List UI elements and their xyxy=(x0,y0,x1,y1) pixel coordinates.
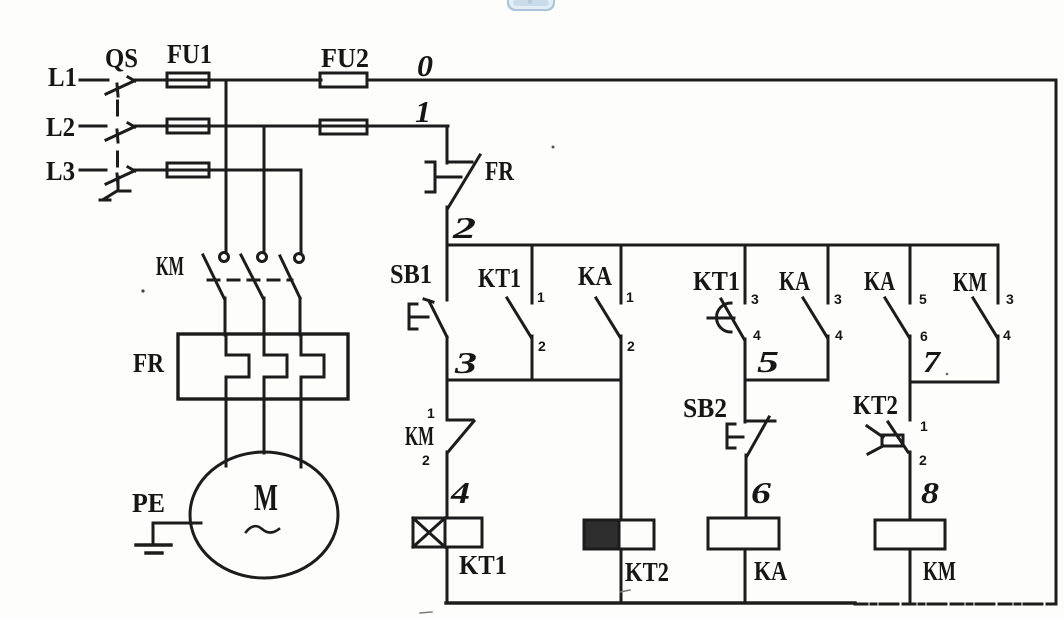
paper speck 5 xyxy=(620,590,630,592)
right rail wire xyxy=(1049,80,1056,604)
KM linkage dashed xyxy=(208,279,292,282)
svg-text:1: 1 xyxy=(537,289,545,305)
svg-text:5: 5 xyxy=(919,291,927,307)
paper speck 3 xyxy=(946,373,949,376)
wire KA coil to bottom bus xyxy=(744,549,747,603)
fuse FU2 upper (line 0) xyxy=(320,73,367,87)
svg-text:KA: KA xyxy=(779,266,810,296)
contact KA (NO, third) xyxy=(885,245,910,382)
motor tilde xyxy=(246,526,279,532)
wire L2 to FU2 xyxy=(133,125,448,128)
svg-text:KT1: KT1 xyxy=(478,263,521,293)
FR heater element 3 xyxy=(301,335,324,399)
wire L2 lead xyxy=(80,125,106,128)
svg-text:6: 6 xyxy=(920,328,928,344)
svg-text:2: 2 xyxy=(538,338,546,354)
svg-text:8: 8 xyxy=(921,475,940,510)
contactor KM main contact 1 xyxy=(203,253,229,336)
paper speck 1 xyxy=(141,289,144,292)
svg-text:QS: QS xyxy=(105,43,138,73)
coil KT2 xyxy=(584,520,654,549)
svg-text:KM: KM xyxy=(156,251,184,281)
wire L1 lead xyxy=(80,79,108,82)
svg-text:L1: L1 xyxy=(48,62,77,92)
wire line 0 xyxy=(367,79,1056,82)
toolbar button (blue, cropped at top) xyxy=(507,0,555,11)
svg-text:FR: FR xyxy=(485,156,514,186)
coil KT1 xyxy=(413,518,482,547)
svg-text:1: 1 xyxy=(626,289,634,305)
wire heater to motor A xyxy=(225,399,228,466)
wire motor branch A from L1 xyxy=(225,80,228,252)
wire L3 to branch xyxy=(133,169,301,172)
FR NC contact xyxy=(426,155,480,208)
svg-text:4: 4 xyxy=(450,475,470,510)
svg-text:4: 4 xyxy=(753,327,761,343)
wire heater to motor C xyxy=(300,399,303,467)
wire motor branch C from L3 xyxy=(300,170,303,254)
wire L3 lead xyxy=(80,169,106,172)
bottom bus dashed part xyxy=(855,603,1050,606)
svg-text:1: 1 xyxy=(427,405,435,421)
node 3 bus xyxy=(447,379,621,382)
wire SB1 to node3 xyxy=(446,337,449,381)
svg-text:KM: KM xyxy=(405,421,434,451)
paper speck 2 xyxy=(552,146,555,149)
wire line 1 drop xyxy=(446,126,449,163)
svg-text:5: 5 xyxy=(757,344,779,379)
node 2 bus xyxy=(447,244,998,247)
QS linkage dashed xyxy=(100,101,130,200)
fuse FU1 pole 1 xyxy=(167,73,209,87)
FR heater element 2 xyxy=(264,335,287,399)
svg-text:L3: L3 xyxy=(46,156,75,186)
wire motor branch B from L2 xyxy=(263,126,266,252)
svg-text:KA: KA xyxy=(578,261,612,291)
contact KA (NO, first) xyxy=(596,245,621,520)
svg-text:PE: PE xyxy=(132,488,165,518)
svg-text:6: 6 xyxy=(751,475,772,510)
svg-text:SB2: SB2 xyxy=(683,393,727,423)
svg-text:3: 3 xyxy=(834,291,842,307)
ground bars xyxy=(136,545,171,553)
svg-text:L2: L2 xyxy=(46,112,75,142)
svg-text:KT2: KT2 xyxy=(853,390,898,420)
bottom bus solid part xyxy=(446,601,855,604)
motor M circle xyxy=(190,452,338,578)
contact KT1 (NO) xyxy=(507,245,532,380)
wire KT2 coil to bottom bus xyxy=(620,549,623,603)
node 7 bus xyxy=(910,381,998,384)
node 5 bus xyxy=(745,379,828,382)
contact KM (NO aux) xyxy=(973,245,998,382)
wire KM coil to bottom bus xyxy=(909,549,912,604)
svg-text:4: 4 xyxy=(1003,327,1011,343)
svg-text:FU1: FU1 xyxy=(167,39,212,69)
coil KA xyxy=(708,518,779,549)
svg-text:3: 3 xyxy=(1006,291,1014,307)
svg-text:KA: KA xyxy=(754,556,787,586)
ground wire xyxy=(153,523,201,545)
svg-text:KT1: KT1 xyxy=(459,550,507,580)
svg-text:FU2: FU2 xyxy=(321,43,369,73)
fuse FU2 lower (line 1) xyxy=(320,120,367,134)
svg-text:M: M xyxy=(254,477,278,519)
wire SB2 to coil KA xyxy=(745,455,748,518)
pushbutton SB1 xyxy=(409,245,447,337)
switch QS pole 1 xyxy=(106,77,135,96)
contact KM NC aux xyxy=(447,380,474,518)
switch QS pole 2 xyxy=(106,123,135,142)
svg-text:0: 0 xyxy=(417,48,433,83)
svg-text:2: 2 xyxy=(422,452,430,468)
svg-text:KT1: KT1 xyxy=(693,266,740,296)
contact KA (NO, second) xyxy=(803,245,828,380)
svg-text:3: 3 xyxy=(751,291,759,307)
contact KT2 (delayed NC) xyxy=(867,382,910,520)
svg-text:3: 3 xyxy=(454,345,477,380)
svg-text:2: 2 xyxy=(452,210,476,245)
contactor KM main contact 3 xyxy=(280,254,304,336)
svg-text:4: 4 xyxy=(835,327,843,343)
contactor KM main contact 2 xyxy=(241,253,267,336)
svg-text:2: 2 xyxy=(627,338,635,354)
fuse FU1 pole 3 xyxy=(167,163,209,177)
svg-text:1: 1 xyxy=(415,94,431,129)
svg-text:2: 2 xyxy=(919,452,927,468)
wire L1 to FU2 xyxy=(133,79,321,82)
svg-text:SB1: SB1 xyxy=(390,259,432,289)
fuse FU1 pole 2 xyxy=(167,119,209,133)
switch QS pole 3 xyxy=(106,167,135,186)
svg-text:KM: KM xyxy=(953,267,987,297)
coil KM xyxy=(875,520,945,549)
wire FR to node2 xyxy=(446,207,449,246)
svg-text:FR: FR xyxy=(133,348,164,378)
paper speck 4 xyxy=(420,612,432,613)
svg-text:7: 7 xyxy=(923,344,942,379)
wire KT1 coil to bottom bus xyxy=(446,547,449,603)
pushbutton SB2 (NC) xyxy=(727,380,775,456)
svg-text:KM: KM xyxy=(923,556,956,586)
FR heater element 1 xyxy=(226,335,249,399)
svg-text:KT2: KT2 xyxy=(625,557,669,587)
contact KT1 (delayed NO) xyxy=(708,245,745,381)
thermal relay FR heater box xyxy=(178,334,348,399)
svg-text:1: 1 xyxy=(920,418,928,434)
wire heater to motor B xyxy=(263,399,266,453)
svg-text:KA: KA xyxy=(864,266,895,296)
